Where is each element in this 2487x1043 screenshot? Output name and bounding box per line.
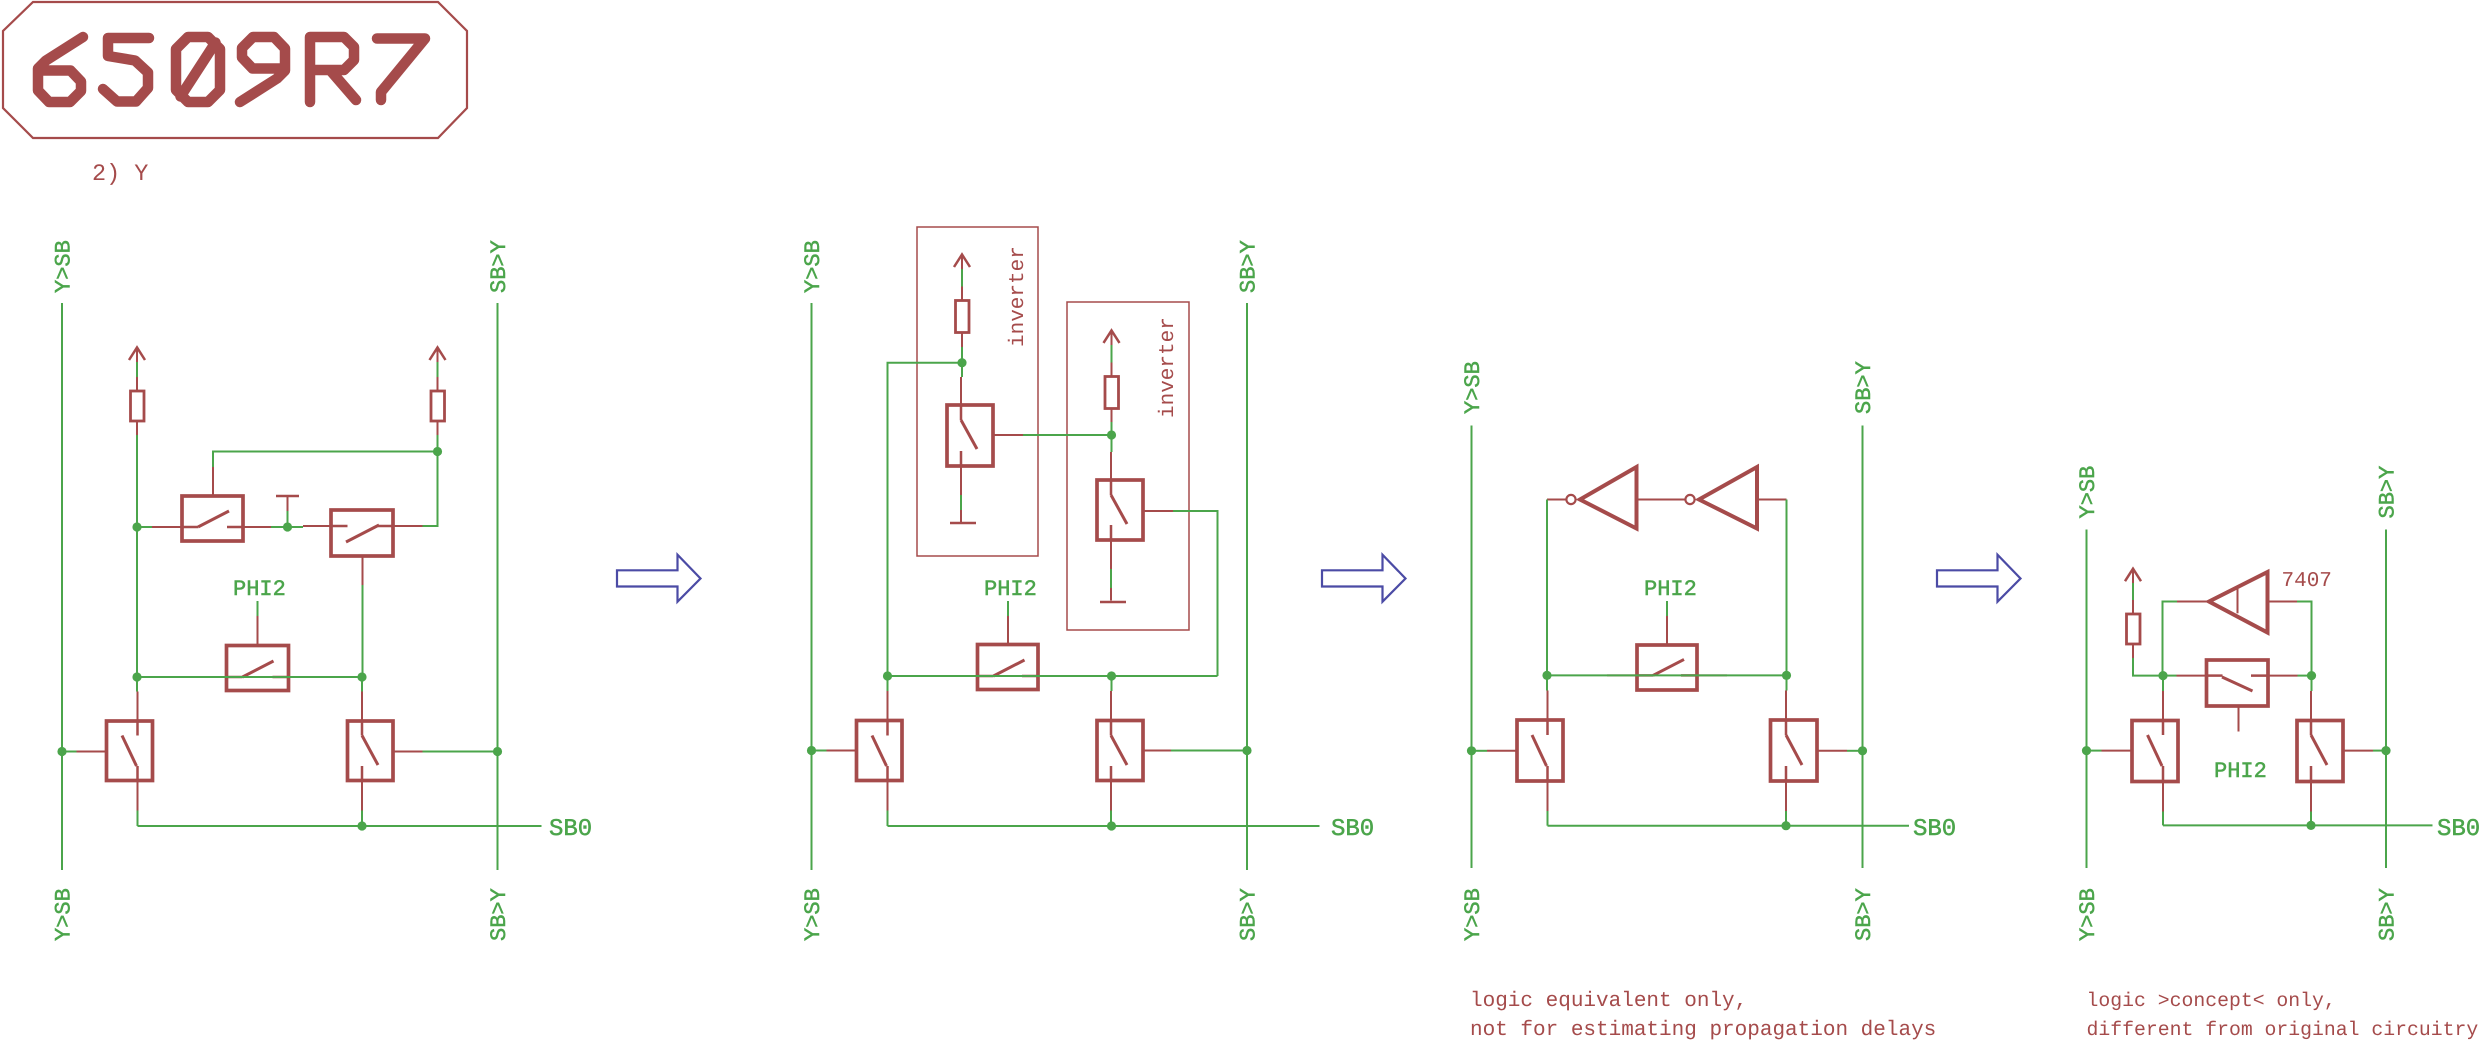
wire: M7 source down to ground 2 bbox=[1110, 569, 1112, 588]
net label Y>SB top (section 2) bbox=[801, 240, 826, 293]
junction node L (2163,675.6) bbox=[2158, 671, 2167, 680]
svg-text:Y>SB: Y>SB bbox=[52, 888, 77, 941]
svg-text:PHI2: PHI2 bbox=[233, 577, 286, 602]
net label SB>Y bottom (section 3) bbox=[1852, 888, 1877, 941]
svg-text:Y>SB: Y>SB bbox=[801, 888, 826, 941]
arrow 1 (section 1 to section 2) bbox=[617, 555, 701, 602]
wire: M2 gate down to node D bbox=[362, 585, 364, 677]
svg-text:SB0: SB0 bbox=[1331, 816, 1374, 843]
svg-text:inverter: inverter bbox=[1157, 317, 1180, 418]
junction on SB>Y rail (497.5,751.5) bbox=[493, 747, 502, 756]
svg-text:SB>Y: SB>Y bbox=[1852, 361, 1877, 414]
inverter U1 (left-pointing triangle with bubble) bbox=[1547, 467, 1685, 529]
wire: Y>SB left rail (section 4) bbox=[2086, 530, 2088, 869]
svg-text:logic >concept< only,: logic >concept< only, bbox=[2087, 990, 2336, 1012]
wire: Y>SB left rail (section 1) bbox=[61, 303, 63, 870]
junction node H (887.5,676) bbox=[883, 671, 892, 680]
svg-text:SB0: SB0 bbox=[549, 816, 592, 843]
switch M11 (middle PHI2 pass gate, section 3) bbox=[1607, 616, 1727, 690]
net label Y>SB bottom (section 3) bbox=[1461, 888, 1486, 941]
junction on Y>SB rail (1471.5,750.8) bbox=[1467, 746, 1476, 755]
svg-text:different from original circui: different from original circuitry bbox=[2087, 1019, 2479, 1041]
power VCC arrow symbol P5 (section 4) bbox=[2125, 569, 2141, 583]
net label SB>Y top (section 3) bbox=[1852, 361, 1877, 414]
switch M16 (bottom-right, section 4) bbox=[2297, 691, 2373, 812]
wire: SB0 net (section 1) bbox=[138, 825, 542, 827]
arrow 3 (section 3 to section 4) bbox=[1937, 555, 2021, 602]
wire: SB>Y right rail (section 2) bbox=[1246, 303, 1248, 870]
svg-text:Y>SB: Y>SB bbox=[1461, 888, 1486, 941]
wire: Y>SB rail to M15 gate (section 4) bbox=[2087, 750, 2102, 752]
wire: Y>SB rail to M12 gate (section 3) bbox=[1472, 750, 1488, 752]
wire: node H down to M9 bbox=[887, 676, 889, 691]
wire: node G down to M7 bbox=[1111, 435, 1113, 452]
junction node E (437.5,451.5) bbox=[433, 447, 442, 456]
switch M3 (middle PHI2 pass gate, section 1) bbox=[197, 616, 319, 691]
switch M9 (bottom-left, section 2) bbox=[827, 691, 903, 811]
svg-text:Y>SB: Y>SB bbox=[52, 240, 77, 293]
wire: node C down to M4 bbox=[136, 677, 138, 692]
wire: M13 drain down to SB0 (section 3) bbox=[1785, 811, 1787, 826]
svg-text:SB>Y: SB>Y bbox=[487, 240, 512, 293]
net label SB>Y top (section 1) bbox=[487, 240, 512, 293]
wire: node D down to M5 bbox=[361, 677, 363, 692]
wire: R5 down and right to node L bbox=[2133, 658, 2163, 676]
svg-text:SB>Y: SB>Y bbox=[2376, 888, 2401, 941]
inverter U2 (left-pointing triangle with bubble) bbox=[1685, 467, 1786, 529]
inverter frame 1 (dashed outline box) bbox=[917, 227, 1038, 556]
net label Y>SB top (section 1) bbox=[52, 240, 77, 293]
junction on SB0 (1786,825.7) bbox=[1781, 821, 1790, 830]
wire: VCC to R5 bbox=[2132, 583, 2134, 600]
wire: node I down to M10 bbox=[1111, 676, 1113, 691]
wire: node L to M14 left pin bbox=[2163, 675, 2177, 677]
svg-text:7407: 7407 bbox=[2282, 570, 2332, 593]
svg-text:SB>Y: SB>Y bbox=[1852, 888, 1877, 941]
svg-text:not for estimating propagation: not for estimating propagation delays bbox=[1470, 1019, 1936, 1042]
switch M2 (top-right, section 1) bbox=[303, 510, 423, 585]
net label Y>SB top (section 3) bbox=[1461, 361, 1486, 414]
switch M8 (middle PHI2 pass gate, section 2) bbox=[948, 616, 1069, 690]
wire: PHI2 label to M11 gate bbox=[1666, 601, 1668, 616]
wire: M10 gate to SB>Y rail (section 2) bbox=[1171, 750, 1247, 752]
switch M15 (bottom-left, section 4) bbox=[2102, 691, 2179, 812]
svg-text:Y>SB: Y>SB bbox=[801, 240, 826, 293]
wire: M9 drain down to SB0 (section 2) bbox=[887, 811, 889, 827]
svg-text:inverter: inverter bbox=[1007, 246, 1030, 347]
svg-text:SB0: SB0 bbox=[2437, 816, 2480, 843]
resistor R3 bbox=[956, 287, 970, 348]
svg-text:logic equivalent only,: logic equivalent only, bbox=[1470, 990, 1747, 1013]
wire: SB0 net (section 3) bbox=[1548, 825, 1910, 827]
wire: node E down and left to M2 right pin bbox=[423, 452, 438, 527]
svg-text:PHI2: PHI2 bbox=[984, 577, 1037, 602]
wire: R4 to node G bbox=[1111, 422, 1113, 435]
gate electrode T symbol (section 1) bbox=[276, 496, 299, 511]
wire: M10 drain down to SB0 (section 2) bbox=[1110, 811, 1112, 827]
switch M4 (bottom-left, section 1) bbox=[77, 692, 153, 811]
wire: M1 to M2 (node B) bbox=[271, 526, 303, 528]
svg-text:SB>Y: SB>Y bbox=[2376, 466, 2401, 519]
wire: M13 gate to SB>Y rail (section 3) bbox=[1847, 750, 1863, 752]
wire: node J to node K row bbox=[1547, 674, 1787, 676]
label 7407 bbox=[2282, 570, 2332, 593]
logo text 6509R7 bbox=[38, 37, 425, 102]
wire: node H to node I row bbox=[888, 675, 1218, 677]
wire: R2 to node E bbox=[437, 435, 439, 452]
junction on SB0 (2311,825.4) bbox=[2306, 821, 2315, 830]
wire: node K down to M13 bbox=[1786, 675, 1788, 690]
inverter frame 2 (outline box) bbox=[1067, 302, 1189, 630]
wire: R3 to node F bbox=[961, 347, 963, 363]
wire: VCC to R4 bbox=[1111, 345, 1113, 363]
net label PHI2 (section 4) bbox=[2214, 759, 2267, 784]
junction node B (287.5,527) bbox=[283, 522, 292, 531]
ground symbol GND2 bbox=[1100, 588, 1126, 602]
wire: Y>SB rail to M4 gate bbox=[62, 751, 77, 753]
wire: U1 output down to node J bbox=[1546, 500, 1548, 676]
net label SB>Y bottom (section 1) bbox=[487, 888, 512, 941]
wire: M4 drain down to SB0 bbox=[137, 811, 139, 827]
label inverter (frame 1) bbox=[1007, 246, 1030, 347]
net label Y>SB bottom (section 4) bbox=[2076, 888, 2101, 941]
wire: Y>SB left rail (section 3) bbox=[1471, 426, 1473, 869]
junction node F (962,362.7) bbox=[957, 358, 966, 367]
net label SB0 (section 3) bbox=[1913, 816, 1956, 843]
wire: M6 source down to ground 1 bbox=[960, 495, 962, 510]
net label SB0 (section 1) bbox=[549, 816, 592, 843]
wire: VCC to R2 bbox=[437, 362, 439, 377]
junction node J (1547,675.4) bbox=[1542, 671, 1551, 680]
wire: M7 gate wire right and down to node I bbox=[1173, 511, 1218, 676]
net label SB0 (section 4) bbox=[2437, 816, 2480, 843]
resistor R4 bbox=[1105, 363, 1119, 423]
power VCC arrow symbol P1 (section 1 left) bbox=[129, 348, 145, 363]
net label Y>SB top (section 4) bbox=[2076, 466, 2101, 519]
wire: M12 drain down to SB0 (section 3) bbox=[1547, 811, 1549, 826]
power VCC arrow symbol P3 (frame 1) bbox=[954, 255, 970, 270]
junction node A (137,527) bbox=[132, 522, 141, 531]
wire: SB>Y right rail (section 4) bbox=[2385, 530, 2387, 869]
wire: node A to switch M1 left pin bbox=[137, 526, 152, 528]
net label SB>Y bottom (section 2) bbox=[1237, 888, 1262, 941]
junction on Y>SB rail (2086.5,750.6) bbox=[2082, 746, 2091, 755]
svg-text:SB>Y: SB>Y bbox=[487, 888, 512, 941]
arrow 2 (section 2 to section 3) bbox=[1322, 555, 1406, 602]
net label PHI2 (section 3) bbox=[1644, 577, 1697, 602]
svg-text:SB>Y: SB>Y bbox=[1237, 240, 1262, 293]
wire: M1 gate up to top wire bbox=[213, 452, 438, 468]
junction node C (137,677) bbox=[132, 672, 141, 681]
net label PHI2 (section 2) bbox=[984, 577, 1037, 602]
junction node M (2310.5,675.6) bbox=[2307, 671, 2316, 680]
wire: node F left and down to node H bbox=[888, 363, 963, 676]
svg-text:SB0: SB0 bbox=[1913, 816, 1956, 843]
wire: U3 input down to node M bbox=[2297, 602, 2312, 676]
junction node D (362,677) bbox=[357, 672, 366, 681]
wire: R1 to node A (section 1) bbox=[136, 435, 138, 527]
net label Y>SB bottom (section 2) bbox=[801, 888, 826, 941]
switch M6 (inverter 1 driver) bbox=[947, 377, 1023, 495]
wire: U3 output down to node L bbox=[2163, 602, 2178, 676]
junction on SB>Y rail (1247,750.5) bbox=[1242, 746, 1251, 755]
wire: PHI2 label to M3 gate bbox=[257, 601, 259, 616]
resistor R1 bbox=[131, 377, 145, 435]
wire: node L down to M15 bbox=[2162, 676, 2164, 691]
net label SB>Y bottom (section 4) bbox=[2376, 888, 2401, 941]
wire: node C to node D row bbox=[137, 676, 362, 678]
svg-text:2) Y: 2) Y bbox=[92, 161, 148, 188]
wire: M5 gate to SB>Y rail bbox=[423, 751, 498, 753]
svg-text:SB>Y: SB>Y bbox=[1237, 888, 1262, 941]
note text (section 3) bbox=[1470, 990, 1936, 1042]
label inverter (frame 2) bbox=[1157, 317, 1180, 418]
wire: T symbol to node B bbox=[287, 511, 289, 527]
wire: U2 input down to node K bbox=[1786, 500, 1788, 676]
switch M5 (bottom-right, section 1) bbox=[348, 692, 423, 811]
junction on SB0 (362,826) bbox=[357, 821, 366, 830]
junction node K (1786.5,675.4) bbox=[1782, 671, 1791, 680]
svg-text:PHI2: PHI2 bbox=[1644, 577, 1697, 602]
wire: node J down to M12 bbox=[1546, 675, 1548, 690]
power VCC arrow symbol P2 (section 1 right) bbox=[430, 348, 446, 363]
wire: PHI2 label to M8 gate bbox=[1007, 601, 1009, 616]
power VCC arrow symbol P4 (frame 2) bbox=[1104, 330, 1120, 345]
switch M7 (inverter 2 driver) bbox=[1097, 452, 1173, 569]
net label Y>SB bottom (section 1) bbox=[52, 888, 77, 941]
wire: node A down to node C bbox=[136, 527, 138, 677]
wire: M14 right pin to node M bbox=[2298, 675, 2312, 677]
wire: SB0 net (section 4) bbox=[2163, 824, 2433, 826]
junction on Y>SB rail (62,751.5) bbox=[57, 747, 66, 756]
switch M14 (middle PHI2 pass gate, section 4, gate down) bbox=[2177, 660, 2298, 732]
resistor R5 bbox=[2127, 600, 2141, 658]
net label SB>Y top (section 4) bbox=[2376, 466, 2401, 519]
title text 2) Y bbox=[92, 161, 148, 188]
junction node G (1111.5,435) bbox=[1107, 430, 1116, 439]
wire: Y>SB rail to M9 gate (section 2) bbox=[812, 750, 827, 752]
net label SB0 (section 2) bbox=[1331, 816, 1374, 843]
switch M12 (bottom-left, section 3) bbox=[1487, 691, 1563, 812]
note text (section 4) bbox=[2087, 990, 2479, 1041]
junction on SB0 (1111.5,826) bbox=[1107, 821, 1116, 830]
wire: M5 drain down to SB0 bbox=[361, 811, 363, 827]
wire: M16 drain down to SB0 (section 4) bbox=[2310, 812, 2312, 826]
net label SB>Y top (section 2) bbox=[1237, 240, 1262, 293]
svg-text:Y>SB: Y>SB bbox=[2076, 466, 2101, 519]
wire: SB0 net (section 2) bbox=[888, 825, 1320, 827]
svg-text:Y>SB: Y>SB bbox=[1461, 361, 1486, 414]
wire: node M down to M16 bbox=[2311, 676, 2313, 691]
wire: Y>SB left rail (section 2) bbox=[811, 303, 813, 870]
svg-text:Y>SB: Y>SB bbox=[2076, 888, 2101, 941]
resistor R2 bbox=[431, 377, 445, 435]
wire: M15 drain down to SB0 (section 4) bbox=[2162, 812, 2164, 826]
wire: node F down to M6 bbox=[961, 363, 963, 377]
wire: VCC to R3 bbox=[961, 269, 963, 287]
wire: SB>Y right rail (section 3) bbox=[1862, 426, 1864, 869]
net label PHI2 (section 1) bbox=[233, 577, 286, 602]
junction on SB>Y rail (2386,750.6) bbox=[2381, 746, 2390, 755]
junction on SB>Y rail (1862.5,750.8) bbox=[1858, 746, 1867, 755]
wire: M6 gate wire to node G bbox=[1023, 434, 1112, 436]
ground symbol GND1 bbox=[950, 510, 976, 523]
junction node I (1111.5,676) bbox=[1107, 671, 1116, 680]
switch M1 (top-left, section 1) bbox=[152, 467, 271, 541]
svg-text:PHI2: PHI2 bbox=[2214, 759, 2267, 784]
switch M13 (bottom-right, section 3) bbox=[1771, 691, 1848, 812]
wire: SB>Y right rail (section 1) bbox=[497, 303, 499, 870]
buffer U3 7407 (left-pointing triangle) bbox=[2177, 572, 2297, 633]
switch M10 (bottom-right, section 2) bbox=[1097, 691, 1171, 811]
wire: M16 gate to SB>Y rail (section 4) bbox=[2373, 750, 2386, 752]
logo frame octagon bbox=[3, 2, 467, 138]
junction on Y>SB rail (811.5,750.5) bbox=[807, 746, 816, 755]
wire: VCC to R1 bbox=[136, 362, 138, 377]
